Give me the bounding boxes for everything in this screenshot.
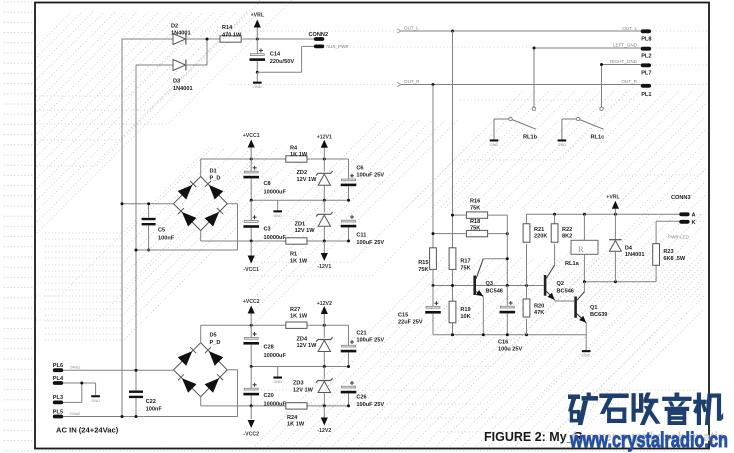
svg-text:C8: C8 — [264, 181, 271, 187]
diode D4 — [614, 214, 616, 239]
node OUT_L tap — [451, 30, 454, 33]
power -12V2 — [323, 406, 325, 418]
node RL1a bottom — [583, 280, 586, 283]
svg-text:+VCC1: +VCC1 — [243, 133, 260, 139]
svg-text:GND: GND — [490, 143, 499, 147]
wire bridge2 plus up — [200, 325, 202, 343]
node R20 gnd — [525, 333, 528, 336]
svg-text:www.crystalradio.cn: www.crystalradio.cn — [569, 429, 728, 452]
node D2/D3 junction — [206, 38, 209, 41]
svg-text:220K: 220K — [534, 234, 547, 240]
node bridge1 AC bus on x136 — [135, 249, 138, 252]
svg-text:PL8: PL8 — [641, 37, 651, 43]
resistor R1 — [286, 238, 307, 244]
svg-text:220u/50V: 220u/50V — [270, 59, 295, 65]
svg-text:R18: R18 — [470, 219, 480, 225]
node -VCC1 tap — [250, 240, 253, 243]
svg-text:OUT_R: OUT_R — [621, 79, 637, 84]
power +VRL right — [614, 209, 616, 215]
inner dotted texture — [45, 232, 121, 234]
svg-text:PL6: PL6 — [53, 363, 63, 369]
svg-text:10000uF: 10000uF — [264, 401, 287, 407]
svg-text:C6: C6 — [356, 165, 363, 171]
zener ZD4 — [316, 337, 333, 341]
svg-text:R: R — [578, 244, 584, 254]
svg-text:C15: C15 — [398, 313, 408, 319]
node C26 bottom — [347, 404, 350, 407]
svg-text:A: A — [692, 212, 696, 218]
svg-text:RL1c: RL1c — [591, 135, 605, 141]
node +12V1 tap — [323, 158, 326, 161]
ground mid rail 1 — [277, 200, 279, 210]
svg-text:C28: C28 — [264, 345, 274, 351]
svg-text:R14: R14 — [222, 25, 233, 31]
wire analog ground rail — [433, 334, 586, 336]
bridge rectifier D5 — [174, 343, 228, 397]
resistor R18 — [466, 230, 487, 236]
capacitor C11 — [342, 220, 356, 222]
power -VCC2 — [250, 406, 252, 420]
wire +VCC1 rail — [201, 158, 286, 160]
svg-text:RIGHT_GND: RIGHT_GND — [610, 59, 638, 64]
capacitor C6 — [342, 179, 356, 181]
wire 24Va1 vertical bus x136 upper — [135, 65, 137, 390]
svg-text:BC546: BC546 — [557, 289, 574, 295]
wire 24Va1 vertical bus x136 lower — [135, 398, 137, 417]
node +12V2 tap — [323, 324, 326, 327]
node 24Va1 on x136 — [135, 369, 138, 372]
wire R15 bottom — [432, 269, 434, 285]
left margin dot texture — [2, 0, 34, 453]
svg-text:R27: R27 — [290, 307, 300, 313]
svg-text:D5: D5 — [210, 333, 217, 339]
svg-text:CONN3: CONN3 — [671, 195, 691, 201]
capacitor C28 — [250, 325, 252, 337]
node C5 bottom — [147, 249, 150, 252]
svg-text:RL1b: RL1b — [523, 135, 538, 141]
power +VRL — [256, 28, 258, 40]
wire bridge1 minus down — [200, 231, 202, 242]
svg-text:R16: R16 — [470, 199, 480, 205]
connector PL6 — [53, 368, 63, 372]
wire Q2 emitter to Q1 base — [554, 300, 556, 301]
connector PL3 — [53, 401, 63, 405]
svg-text:C11: C11 — [356, 232, 366, 238]
connector PL4 — [53, 381, 63, 385]
node base net R15/C15 — [432, 284, 435, 287]
svg-text:-VCC2: -VCC2 — [243, 431, 259, 437]
svg-text:6K8 .5W: 6K8 .5W — [663, 256, 685, 262]
capacitor C8 — [250, 159, 252, 171]
terminal OUT_R — [397, 82, 401, 86]
zener ZD3 — [316, 378, 333, 382]
zener ZD2 — [316, 171, 333, 175]
wire Q3 emitter down — [482, 296, 484, 335]
node C21-C26 mid — [347, 365, 350, 368]
svg-text:R4: R4 — [290, 145, 298, 151]
wire LEFT_GND drop — [533, 48, 535, 107]
node LEFT_GND tap — [533, 47, 536, 50]
svg-text:470 1W: 470 1W — [222, 33, 242, 39]
svg-text:C3: C3 — [264, 227, 271, 233]
svg-text:10K: 10K — [460, 314, 470, 320]
node ZD mid — [323, 199, 326, 202]
node +VCC1 tap — [250, 158, 253, 161]
node +VRL/C14 tap — [256, 38, 259, 41]
svg-text:GND: GND — [582, 354, 591, 358]
wire R17 bottom — [452, 269, 454, 301]
node -12V2 tap — [323, 404, 326, 407]
svg-text:75K: 75K — [418, 267, 428, 273]
resistor R20 — [526, 286, 528, 300]
svg-text:BC639: BC639 — [590, 312, 607, 318]
wire RIGHT_GND drop — [601, 65, 603, 108]
svg-text:75K: 75K — [460, 265, 470, 271]
node PL4-PL3 tie — [80, 382, 83, 385]
connector PL5 — [53, 415, 63, 419]
svg-text:1K 1W: 1K 1W — [290, 314, 308, 320]
svg-text:FIGURE 2: My_R: FIGURE 2: My_R — [484, 430, 583, 444]
resistor R23 — [656, 220, 679, 222]
zener ZD1 — [316, 212, 333, 216]
svg-text:AC IN (24+24Vac): AC IN (24+24Vac) — [56, 425, 119, 434]
ground RL1c — [558, 139, 567, 141]
svg-text:GND: GND — [253, 85, 262, 89]
diode D3 — [173, 60, 186, 71]
svg-text:-VCC1: -VCC1 — [243, 267, 259, 273]
ground RL1b — [490, 139, 499, 141]
svg-text:ZD1: ZD1 — [295, 222, 306, 228]
wire D3 cathode to junction — [186, 64, 208, 66]
svg-text:ZD2: ZD2 — [297, 170, 308, 176]
wire Q1 emitter down — [585, 323, 587, 335]
node -VCC2 tap — [250, 404, 253, 407]
svg-text:100nF: 100nF — [146, 407, 163, 413]
resistor R14 — [220, 36, 241, 42]
wire OUT_L — [401, 30, 641, 32]
connector PL7 — [641, 63, 651, 67]
node +VCC2 tap — [250, 324, 253, 327]
svg-text:100uF 25V: 100uF 25V — [356, 172, 384, 178]
svg-text:R1: R1 — [290, 252, 297, 258]
svg-text:10000uF: 10000uF — [264, 353, 287, 359]
wire R16 feedback vertical — [506, 215, 508, 285]
node R22 rail — [553, 213, 556, 216]
capacitor C3 — [250, 200, 252, 220]
svg-text:PL3: PL3 — [53, 395, 63, 401]
svg-text:1K 1W: 1K 1W — [290, 258, 308, 264]
svg-text:100uF 25V: 100uF 25V — [356, 338, 384, 344]
resistor R24 — [286, 403, 307, 409]
node OUT_R tap — [432, 83, 435, 86]
resistor R16 — [466, 212, 487, 218]
node Q3e gnd — [482, 333, 485, 336]
svg-text:R17: R17 — [460, 259, 470, 265]
svg-text:R15: R15 — [418, 260, 428, 266]
node Q3 collector tie — [506, 257, 509, 260]
capacitor C20 — [250, 367, 252, 389]
wire bridge1 plus up — [200, 159, 202, 177]
svg-text:C16: C16 — [498, 340, 508, 346]
transistor Q3 — [473, 276, 476, 296]
connector PL2 — [641, 47, 651, 51]
svg-text:-12V2: -12V2 — [317, 428, 331, 434]
node base net R17/R19 — [451, 284, 454, 287]
wire D2 anode horizontal — [122, 38, 173, 40]
node R18 right — [506, 232, 509, 235]
svg-text:GND: GND — [91, 399, 100, 403]
connector PL1 — [641, 84, 651, 88]
wire R14 to CONN2 pin1 — [241, 38, 314, 40]
node C11 bottom — [347, 240, 350, 243]
svg-text:10000uF: 10000uF — [264, 235, 287, 241]
node base net R21/R20 — [525, 284, 528, 287]
bridge rectifier D1 — [174, 177, 228, 231]
svg-text:100uF 25V: 100uF 25V — [356, 402, 384, 408]
svg-text:100nF: 100nF — [158, 235, 175, 241]
svg-text:D3: D3 — [173, 78, 180, 84]
svg-text:PL2: PL2 — [641, 54, 651, 60]
wire bridge1 right AC jog — [136, 204, 238, 250]
wire bridge2 minus down — [200, 397, 202, 406]
wire D3 anode horizontal — [136, 64, 173, 66]
svg-text:24Va1: 24Va1 — [70, 366, 81, 370]
wire RIGHT_GND — [602, 64, 641, 66]
svg-text:100uF 25V: 100uF 25V — [356, 240, 384, 246]
wire LEFT_GND — [534, 47, 641, 49]
wire R19 bottom — [452, 323, 454, 335]
svg-text:PL4: PL4 — [53, 376, 64, 382]
svg-text:GND: GND — [273, 380, 282, 384]
transistor Q1 — [574, 297, 577, 318]
node R18 left — [432, 232, 435, 235]
wire -VCC2 rail — [201, 405, 349, 407]
wire RL1b to ground — [494, 118, 509, 120]
svg-text:RL1a: RL1a — [565, 261, 580, 267]
svg-text:PWR LED: PWR LED — [668, 234, 690, 239]
svg-text:D2: D2 — [171, 23, 178, 29]
wire Q1 collector up — [583, 282, 585, 292]
capacitor C22 — [129, 391, 143, 393]
svg-text:-12V1: -12V1 — [317, 264, 331, 270]
resistor R15 — [430, 248, 437, 270]
resistor R19 — [449, 301, 456, 323]
node 24Va2 on x136 — [135, 415, 138, 418]
svg-text:P_D: P_D — [210, 176, 221, 182]
power +12V2 — [323, 314, 325, 325]
node -12V1 tap — [323, 240, 326, 243]
resistor R17 — [449, 248, 456, 270]
svg-text:C21: C21 — [356, 330, 366, 336]
svg-text:C22: C22 — [146, 399, 156, 405]
wire bridge1 left AC — [122, 203, 174, 205]
svg-text:100u 25V: 100u 25V — [498, 346, 523, 352]
svg-text:8K2: 8K2 — [562, 234, 572, 240]
svg-text:R19: R19 — [460, 307, 470, 313]
capacitor C15 — [432, 286, 434, 307]
watermark Chinese logo — [568, 393, 598, 426]
wire PL4 net — [63, 382, 96, 384]
svg-text:+12V2: +12V2 — [317, 301, 332, 307]
svg-text:75K: 75K — [470, 226, 480, 232]
svg-text:1N4001: 1N4001 — [173, 86, 193, 92]
svg-text:+VRL: +VRL — [606, 194, 620, 200]
relay contact RL1b — [532, 107, 535, 110]
wire C14 bottom to AUX_PWR — [257, 71, 301, 73]
node C8-C3 mid — [250, 199, 253, 202]
node RIGHT_GND tap — [600, 63, 603, 66]
resistor R21 — [526, 214, 528, 224]
node ZD2 mid — [323, 365, 326, 368]
wire RL1c to ground — [562, 118, 577, 120]
relay contact RL1c — [600, 107, 603, 110]
svg-text:C5: C5 — [158, 228, 165, 234]
svg-text:47K: 47K — [534, 310, 544, 316]
wire R27 to C21 corner — [307, 324, 349, 326]
svg-text:+VCC2: +VCC2 — [243, 299, 260, 305]
terminal OUT_L — [397, 29, 401, 33]
capacitor C21 — [342, 345, 356, 347]
wire D2 cathode to R14 — [186, 38, 221, 40]
wire 24Va1 from PL6 — [63, 369, 174, 371]
svg-text:Q2: Q2 — [557, 281, 564, 287]
node bridge1 left on bus — [121, 202, 124, 205]
capacitor C5 — [148, 204, 150, 218]
wire R4 to C6 corner — [307, 158, 349, 160]
svg-text:D4: D4 — [625, 245, 633, 251]
wire Q3 collector to tie — [483, 258, 507, 260]
svg-text:R23: R23 — [663, 249, 673, 255]
node D4 bottom — [614, 280, 617, 283]
wire base net — [433, 285, 544, 287]
svg-text:+VRL: +VRL — [251, 13, 265, 19]
node C14 bottom junction — [256, 71, 259, 74]
capacitor C26 — [342, 386, 356, 388]
wire 24Va2 vertical bus x122 — [121, 39, 123, 417]
svg-text:Q3: Q3 — [486, 281, 493, 287]
ground mid rail 2 — [277, 367, 279, 377]
svg-text:12V 1W: 12V 1W — [295, 228, 316, 234]
wire OUT_R — [401, 84, 641, 86]
svg-text:PL5: PL5 — [53, 409, 63, 415]
dotted guide rays — [36, 28, 196, 96]
node RL1a rail — [583, 213, 586, 216]
svg-text:R20: R20 — [534, 303, 544, 309]
resistor R27 — [286, 322, 307, 328]
wire OUT_R drop — [432, 85, 434, 248]
node C28-C20 mid — [250, 365, 253, 368]
svg-text:R22: R22 — [562, 227, 572, 233]
svg-text:R24: R24 — [287, 415, 298, 421]
svg-text:GND: GND — [558, 143, 567, 147]
node C6-C11 mid — [347, 199, 350, 202]
resistor R22 — [554, 214, 556, 224]
svg-text:1N4001: 1N4001 — [171, 31, 191, 37]
wire bridge2 right AC jog — [63, 370, 238, 417]
svg-text:ZD3: ZD3 — [293, 381, 304, 387]
ground Q1 emitter — [585, 335, 587, 350]
svg-text:Q1: Q1 — [590, 305, 597, 311]
svg-text:24Va2: 24Va2 — [70, 412, 81, 416]
wire OUT_L drop — [452, 31, 454, 248]
svg-text:75K: 75K — [470, 205, 480, 211]
svg-text:1N4001: 1N4001 — [625, 252, 645, 258]
node 24Va2 on x122 — [121, 415, 124, 418]
svg-text:12V 1W: 12V 1W — [297, 177, 318, 183]
svg-text:+12V1: +12V1 — [317, 135, 332, 141]
resistor R4 — [286, 156, 307, 162]
svg-text:BC546: BC546 — [486, 288, 503, 294]
svg-text:PL7: PL7 — [641, 71, 651, 77]
svg-text:P_D: P_D — [210, 340, 221, 346]
connector PL8 — [641, 29, 651, 33]
node C16 gnd — [506, 333, 509, 336]
node D4 rail — [614, 213, 617, 216]
wire mid rail 0V1 — [251, 199, 348, 201]
svg-text:C14: C14 — [270, 52, 281, 58]
svg-text:PL1: PL1 — [641, 92, 651, 98]
svg-text:ZD4: ZD4 — [297, 336, 308, 342]
wire -VCC1 rail — [201, 240, 349, 242]
svg-text:10000uF: 10000uF — [264, 189, 287, 195]
node R19 gnd — [451, 333, 454, 336]
power +VCC1 — [250, 148, 252, 160]
capacitor C14 — [256, 39, 258, 54]
node base net Q3 collector tie — [506, 284, 509, 287]
diode D2 — [173, 34, 186, 45]
svg-text:1K 1W: 1K 1W — [290, 152, 308, 158]
ground below C14 — [256, 72, 258, 81]
svg-text:OUT_R: OUT_R — [404, 79, 420, 84]
node R16 left — [451, 214, 454, 217]
ground PL4 — [95, 383, 97, 395]
svg-text:12V 1W: 12V 1W — [293, 388, 314, 394]
svg-text:22uF 25V: 22uF 25V — [398, 319, 423, 325]
svg-text:12V 1W: 12V 1W — [297, 343, 318, 349]
svg-text:LEFT_GND: LEFT_GND — [613, 43, 638, 48]
wire Q1 collector net — [584, 281, 656, 283]
power +12V1 — [323, 148, 325, 160]
svg-text:OUT_L: OUT_L — [622, 26, 637, 31]
power +VCC2 — [250, 314, 252, 326]
power -12V1 — [323, 241, 325, 253]
transistor Q2 — [544, 275, 547, 296]
power -VCC1 — [250, 241, 252, 256]
svg-text:OUT_L: OUT_L — [404, 26, 419, 31]
svg-text:GND: GND — [273, 214, 282, 218]
wire mid rail 0V2 — [251, 366, 348, 368]
relay coil RL1a — [583, 214, 585, 240]
capacitor C16 — [506, 286, 508, 307]
wire +VCC2 rail — [201, 324, 286, 326]
svg-text:R21: R21 — [534, 227, 544, 233]
svg-text:C20: C20 — [264, 393, 274, 399]
svg-text:AUX_PWR: AUX_PWR — [326, 44, 349, 49]
wire VRL rail — [527, 213, 680, 215]
svg-text:K: K — [692, 220, 696, 226]
svg-text:C26: C26 — [356, 394, 366, 400]
svg-text:1K 1W: 1K 1W — [287, 422, 305, 428]
svg-text:D1: D1 — [210, 168, 217, 174]
node C5 top — [147, 202, 150, 205]
